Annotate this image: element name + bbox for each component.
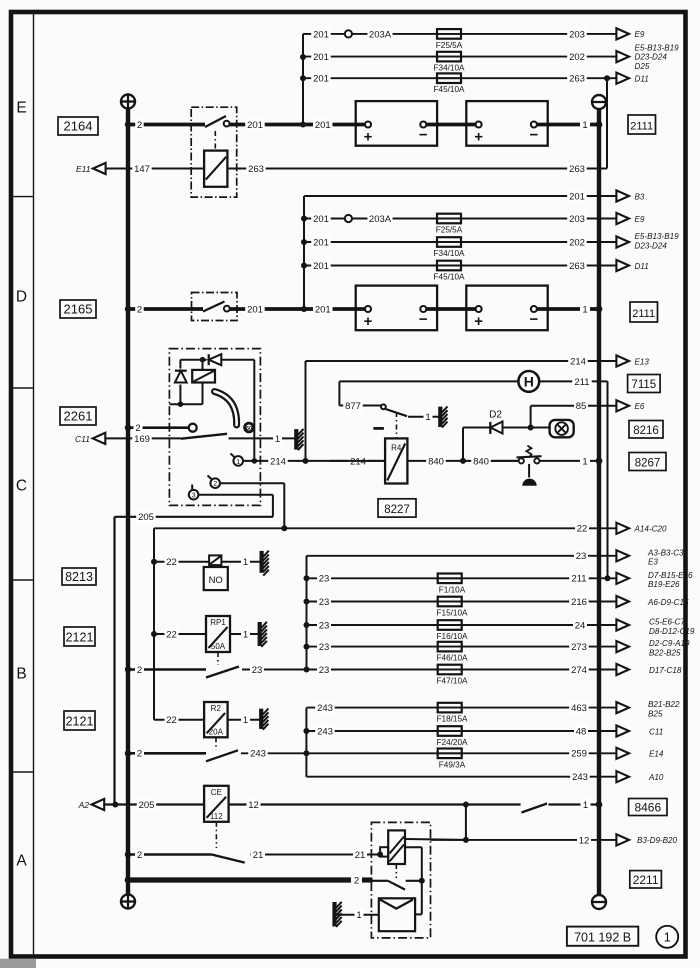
ignition feed contact circle: [189, 424, 197, 432]
thermal fuse NO: [204, 555, 228, 590]
svg-text:D2-C9-A19: D2-C9-A19: [649, 639, 690, 648]
wire 877 stub: [339, 381, 381, 412]
svg-text:201: 201: [313, 214, 329, 225]
diode D-top (2261): [209, 354, 222, 365]
svg-text:23: 23: [319, 665, 330, 676]
svg-text:203A: 203A: [369, 214, 392, 225]
wire 201 fuse line E5 (section D): [304, 236, 616, 248]
svg-text:274: 274: [571, 665, 587, 676]
fuse F16/10A: [437, 620, 468, 641]
svg-text:−: −: [419, 127, 428, 144]
mech link dash pump: [395, 864, 397, 878]
svg-text:1: 1: [243, 557, 248, 568]
svg-text:201: 201: [313, 74, 329, 85]
wire 2 from bus to switch (section D): [128, 303, 203, 315]
plus terminal symbol top: [121, 95, 135, 109]
wire 205 distribution: [115, 511, 273, 805]
wire 2 thick feed to pump contact: [128, 874, 373, 886]
connector box 2165: [60, 300, 96, 318]
fuse F45/10A (section E): [434, 73, 465, 94]
svg-text:147: 147: [134, 164, 150, 175]
wire 12 to B3-D9-B20: [431, 834, 617, 846]
wire 840 R4 to junction: [407, 455, 518, 467]
wire D2 diode line: [463, 425, 550, 431]
svg-text:202: 202: [569, 52, 585, 63]
svg-text:201: 201: [313, 261, 329, 272]
svg-text:1: 1: [243, 715, 248, 726]
svg-text:701 192 B: 701 192 B: [574, 931, 631, 945]
fuse F15/10A: [437, 597, 468, 618]
svg-text:8213: 8213: [65, 570, 93, 584]
svg-text:201: 201: [313, 29, 329, 40]
wire 1 R2 to ground bar: [228, 714, 260, 726]
svg-text:D: D: [16, 289, 27, 306]
wire feeder riser section E: [300, 34, 306, 128]
svg-text:2: 2: [354, 875, 359, 886]
wire 23 fuse F1 line to 211: [304, 572, 617, 584]
svg-text:263: 263: [569, 74, 585, 85]
svg-text:22: 22: [166, 629, 177, 640]
svg-text:2111: 2111: [630, 121, 653, 133]
actuator solenoid block: [380, 830, 405, 864]
relay mech link dash (section E): [214, 131, 216, 151]
connector box 2164: [58, 117, 98, 135]
arrow to A14-C20: [616, 523, 667, 534]
node label 202: [567, 51, 587, 63]
arrow to A6-D9-C15: [616, 596, 689, 607]
switch blade (23 line): [206, 667, 239, 678]
ignition rotary blade: [181, 434, 227, 439]
pump motor box: [379, 898, 415, 931]
svg-text:263: 263: [569, 164, 585, 175]
wire 1 NO to ground bar: [221, 556, 260, 568]
wire 214 into R4: [330, 460, 385, 462]
fuse F49/3A: [438, 749, 466, 770]
svg-text:2: 2: [213, 481, 217, 488]
connector box 8267: [629, 453, 666, 471]
svg-text:7115: 7115: [631, 379, 656, 391]
svg-text:F49/3A: F49/3A: [439, 760, 466, 769]
svg-text:F25/5A: F25/5A: [436, 41, 463, 50]
svg-text:23: 23: [319, 597, 330, 608]
svg-text:211: 211: [571, 574, 586, 585]
svg-text:A14-C20: A14-C20: [634, 525, 667, 534]
wire solenoid to 12 riser: [405, 838, 466, 841]
svg-text:840: 840: [428, 456, 444, 467]
ground bar (NO): [262, 551, 269, 576]
internal wire right branch: [405, 847, 422, 914]
svg-text:2: 2: [137, 120, 142, 131]
svg-text:E9: E9: [635, 215, 645, 224]
node label 203: [567, 28, 587, 40]
wire 23 fuse F46 line to 273: [304, 641, 617, 653]
fuse F25/5A (section D): [436, 214, 463, 235]
node label 203A: [368, 28, 393, 40]
svg-text:1: 1: [243, 629, 248, 640]
svg-text:60: 60: [246, 426, 252, 432]
horn H symbol: [518, 371, 539, 392]
svg-text:C11: C11: [75, 434, 90, 444]
wire 1 battery to ground bus (section D): [537, 303, 602, 315]
wire 201/203A fuse line E9 (section E): [303, 28, 616, 40]
svg-text:23: 23: [319, 620, 330, 631]
ignition contact 2 circled: [208, 476, 221, 489]
svg-text:C11: C11: [649, 727, 663, 736]
svg-text:A3-B3-C3: A3-B3-C3: [647, 548, 684, 557]
arrow to B3-D9-B20: [616, 834, 677, 845]
battery G4 (section D right): [466, 286, 547, 331]
svg-text:−: −: [530, 127, 539, 144]
svg-text:F34/10A: F34/10A: [434, 64, 465, 73]
svg-text:RP1: RP1: [210, 618, 226, 627]
svg-text:1: 1: [275, 434, 280, 445]
junction D11/263 riser: [604, 75, 610, 81]
svg-text:F25/5A: F25/5A: [436, 226, 463, 235]
wire 12 CE to switch: [229, 799, 521, 811]
node on bus (D feed): [125, 306, 131, 312]
wire 21 to actuator assembly: [251, 849, 384, 861]
svg-text:243: 243: [250, 749, 266, 760]
svg-text:22: 22: [577, 524, 588, 535]
svg-text:2211: 2211: [633, 873, 659, 887]
svg-text:B22-B25: B22-B25: [649, 649, 681, 658]
wire feeder riser section D: [301, 196, 307, 312]
node on bus (243 switch): [125, 750, 131, 756]
fuse F25/5A (section E): [436, 29, 463, 50]
connector box 2111 (section E): [628, 115, 656, 134]
svg-text:C: C: [16, 478, 27, 495]
svg-text:D23-D24: D23-D24: [635, 53, 668, 62]
svg-text:F24/20A: F24/20A: [437, 738, 468, 747]
pump contact blade: [373, 878, 425, 890]
wire 243 to A10: [306, 771, 616, 783]
connector box 8466: [629, 799, 667, 816]
svg-text:203A: 203A: [369, 29, 392, 40]
node label 263 (D): [567, 260, 587, 272]
svg-text:203: 203: [569, 214, 585, 225]
wire battery link (section E): [426, 123, 480, 127]
ignition contact 1 circled: [231, 454, 244, 466]
relay contact terminal circle: [224, 121, 230, 127]
svg-text:F45/10A: F45/10A: [434, 85, 465, 94]
wire 1 ground bar to pump: [336, 909, 379, 921]
svg-text:B21-B22: B21-B22: [648, 700, 680, 709]
node on bus (21 switch): [125, 851, 131, 857]
plus terminal symbol bottom: [121, 895, 135, 909]
arrow to D7-B15-E16 B19-E26: [616, 571, 693, 589]
wire 201 fuse line D11 (section D): [304, 260, 616, 272]
svg-text:8466: 8466: [634, 801, 661, 815]
scan smudge bottom-left: [0, 959, 36, 968]
contact terminal 60 (2261): [245, 423, 254, 432]
switch blade (8466): [522, 804, 548, 813]
switch blade (243): [206, 750, 238, 761]
svg-text:243: 243: [317, 703, 333, 714]
svg-text:D2: D2: [489, 410, 502, 421]
ground bar (877 switch): [440, 406, 447, 427]
battery G1 (section E left): [356, 101, 437, 146]
wire 85 to E6: [531, 400, 617, 428]
svg-text:8227: 8227: [384, 504, 410, 516]
arrow to D11 (D): [616, 260, 648, 271]
node label 203A (D): [368, 213, 393, 225]
svg-text:B3: B3: [635, 192, 645, 201]
wire 1 RP1 to ground bar: [230, 628, 258, 640]
svg-text:1: 1: [236, 459, 240, 466]
ground bar (2261 output 1): [296, 429, 303, 450]
wire 2 bus to switch (21): [128, 849, 212, 861]
switch terminal circle (D): [224, 306, 230, 312]
wire 1 switch to ground bus (8466): [549, 799, 603, 811]
node on bus (E feed): [125, 121, 131, 127]
svg-text:273: 273: [571, 642, 587, 653]
svg-text:263: 263: [248, 164, 264, 175]
connector box 8227: [378, 499, 416, 517]
arrow to E9 (D): [616, 213, 644, 224]
minus terminal symbol bottom: [592, 895, 606, 909]
arrow to A3-B3-C3 E3: [616, 548, 684, 566]
svg-text:22: 22: [166, 557, 177, 568]
diode D2: [489, 410, 502, 434]
svg-text:201: 201: [247, 120, 263, 131]
svg-text:21: 21: [253, 850, 264, 861]
svg-text:2164: 2164: [64, 119, 93, 134]
right ground bus wire: [597, 109, 601, 895]
wire battery link (section D): [426, 307, 480, 311]
svg-text:2165: 2165: [64, 302, 93, 317]
wire 23 rail to A3-B3-C3: [307, 550, 617, 670]
wire 243 switch to rail and fuse F49: [241, 747, 616, 759]
svg-text:21: 21: [355, 850, 366, 861]
wire 22 to relay R2: [154, 714, 204, 726]
svg-text:22: 22: [166, 715, 177, 726]
arrow to A10: [616, 771, 663, 782]
svg-text:E9: E9: [635, 30, 645, 39]
connector box 8216: [629, 421, 663, 439]
node label 203 (D): [567, 213, 587, 225]
svg-text:E: E: [16, 100, 26, 117]
wire 23 switch to fuse F47 line: [242, 664, 616, 676]
svg-text:+: +: [364, 313, 373, 330]
svg-text:259: 259: [571, 749, 587, 760]
wire 23 fuse F15 line to 216: [304, 596, 617, 608]
wire 205 A2 line through CE unit: [104, 799, 204, 811]
node on bus (wire 2 to 2261): [125, 425, 131, 431]
svg-text:205: 205: [138, 512, 154, 523]
svg-text:840: 840: [473, 456, 489, 467]
fuse F34/10A (section D): [434, 237, 465, 258]
svg-text:E11: E11: [76, 164, 91, 174]
svg-text:48: 48: [576, 726, 587, 737]
node label 263: [567, 72, 587, 84]
wire 12 riser: [465, 805, 467, 840]
wire 201 to B3 arrow: [304, 190, 616, 202]
fuse F24/20A: [437, 726, 468, 747]
cigar lighter symbol: [550, 420, 574, 437]
ignition switch assembly 2261 dash-dot housing: [169, 349, 260, 506]
rotary contact arc (2261): [215, 392, 237, 426]
wire contact3 to riser 205: [198, 495, 273, 517]
ground bar (R2): [261, 709, 268, 730]
wire 1 battery to ground bus (section E): [537, 119, 602, 131]
svg-text:1: 1: [582, 120, 587, 131]
svg-text:D23-D24: D23-D24: [635, 241, 668, 250]
svg-text:E6: E6: [635, 402, 645, 411]
relay R4: [385, 438, 407, 483]
svg-text:−: −: [419, 311, 428, 328]
wire 263 coil to D11 riser: [227, 78, 607, 175]
wire 2 bus to switch (23 line): [128, 664, 206, 676]
connector circle 203A: [345, 30, 352, 37]
title box 701 192 B: [567, 927, 638, 946]
svg-text:214: 214: [570, 356, 586, 367]
svg-text:D17-C18: D17-C18: [649, 666, 682, 675]
connector box 2121 upper: [64, 627, 95, 646]
arrow to E5-B13-B19 D23-D24 D25: [616, 43, 679, 71]
svg-text:F15/10A: F15/10A: [437, 609, 468, 618]
fuse F1/10A: [438, 574, 466, 595]
svg-text:112: 112: [210, 812, 223, 821]
ground bar (pump): [335, 902, 342, 927]
left supply bus wire: [126, 109, 130, 896]
fuse F45/10A (section D): [434, 261, 465, 282]
coil L1 (2261): [192, 370, 215, 383]
wire 2 bus to switch (243): [128, 747, 206, 759]
svg-text:2: 2: [137, 665, 142, 676]
wire 243 fuse F24 line to 48: [306, 725, 616, 737]
node label 202 (D): [567, 236, 587, 248]
svg-text:243: 243: [317, 726, 333, 737]
arrow to C11: [616, 725, 663, 736]
svg-text:D8-D12-C19: D8-D12-C19: [649, 627, 695, 636]
connector box 2211: [630, 871, 662, 888]
svg-text:D11: D11: [635, 75, 649, 84]
mech link dash RP1: [217, 652, 219, 665]
svg-text:+: +: [474, 129, 483, 146]
arrow to E14: [616, 748, 663, 759]
svg-text:R4: R4: [391, 444, 402, 453]
svg-text:1: 1: [582, 304, 587, 315]
wire 2 bus to ignition contact: [128, 422, 189, 434]
arrow to D11: [616, 73, 648, 84]
svg-text:50A: 50A: [211, 642, 226, 651]
svg-text:D7-B15-E16: D7-B15-E16: [648, 571, 693, 580]
arrow to A2: [78, 799, 105, 810]
svg-text:201: 201: [313, 52, 329, 63]
battery G3 (section D left): [356, 286, 437, 331]
wire riser D2: [462, 428, 464, 461]
relay coil (section E): [204, 151, 227, 187]
wire 23 fuse F16 line to 24: [304, 619, 617, 631]
svg-text:E14: E14: [649, 750, 664, 759]
connector circle 203A (D): [345, 215, 352, 222]
svg-text:243: 243: [572, 772, 588, 783]
svg-text:201: 201: [569, 191, 585, 202]
svg-text:211: 211: [574, 377, 589, 388]
wire internal top link (2261): [169, 357, 257, 464]
connector box 2261: [60, 407, 96, 425]
svg-text:−: −: [530, 311, 539, 328]
svg-text:12: 12: [579, 835, 590, 846]
wire 201/203A fuse line E9 (section D): [304, 213, 616, 225]
wire 1 thermal contact to ground bus: [540, 455, 603, 467]
arrow to E5-B13-B19 D23-D24: [616, 232, 679, 250]
relay blade (877 switch): [386, 409, 408, 416]
battery G2 (section E right): [466, 101, 547, 146]
svg-text:A: A: [16, 853, 27, 870]
switch S-D dash-dot housing: [192, 293, 238, 321]
svg-text:D11: D11: [635, 262, 649, 271]
svg-text:F18/15A: F18/15A: [437, 715, 468, 724]
svg-text:F34/10A: F34/10A: [434, 249, 465, 258]
connector box 8213: [62, 568, 96, 585]
svg-text:169: 169: [134, 434, 150, 445]
relay RP1/50A: [206, 616, 230, 652]
svg-text:B25: B25: [648, 710, 663, 719]
switch blade (section D): [203, 302, 225, 312]
svg-text:202: 202: [569, 237, 585, 248]
svg-text:F45/10A: F45/10A: [434, 273, 465, 282]
arrow to B3: [616, 190, 644, 201]
svg-text:8216: 8216: [633, 425, 659, 437]
ground bar (RP1): [260, 622, 267, 647]
svg-text:F46/10A: F46/10A: [437, 654, 468, 663]
svg-text:E5-B13-B19: E5-B13-B19: [635, 43, 680, 52]
wire 2 from bus to relay (section E): [128, 119, 205, 131]
svg-text:CE: CE: [211, 788, 222, 797]
minus mark near R4: [373, 427, 384, 430]
svg-text:203: 203: [569, 29, 585, 40]
svg-text:F1/10A: F1/10A: [439, 585, 466, 594]
arrow to E9: [616, 28, 644, 39]
svg-text:3: 3: [192, 493, 196, 500]
svg-text:24: 24: [575, 620, 586, 631]
control unit CE/112: [204, 786, 229, 822]
svg-text:201: 201: [315, 304, 331, 315]
mech link dash R4: [396, 412, 398, 438]
arrow to C11: [75, 433, 105, 444]
svg-text:2: 2: [137, 749, 142, 760]
wire 22 to relay RP1: [151, 628, 206, 640]
svg-text:214: 214: [270, 456, 286, 467]
minus terminal symbol top: [592, 95, 606, 109]
svg-text:2261: 2261: [64, 409, 93, 424]
svg-text:2121: 2121: [66, 715, 94, 729]
arrow to D2-C9-A19 B22-B25: [616, 639, 690, 657]
svg-text:23: 23: [319, 574, 330, 585]
arrow to E13: [616, 355, 649, 366]
svg-text:B19-E26: B19-E26: [648, 580, 680, 589]
wire 201 switch to batteries (section D): [230, 303, 368, 315]
svg-text:201: 201: [315, 120, 331, 131]
svg-text:A10: A10: [648, 773, 664, 782]
svg-text:NO: NO: [209, 575, 223, 586]
svg-text:216: 216: [571, 597, 587, 608]
wire 214 contact to coil R4 and E13 riser: [243, 455, 385, 467]
wire 169 C11 to ignition blade: [105, 432, 181, 444]
svg-text:12: 12: [248, 800, 259, 811]
svg-text:877: 877: [345, 401, 361, 412]
svg-text:20A: 20A: [209, 728, 224, 737]
wire 211 horn line: [339, 375, 607, 578]
svg-text:463: 463: [571, 703, 587, 714]
svg-text:1: 1: [664, 930, 671, 944]
svg-text:R2: R2: [211, 704, 222, 713]
mech link dash CE: [215, 822, 217, 848]
wire 22 rail left: [154, 522, 616, 720]
svg-text:23: 23: [319, 642, 330, 653]
wire contact2 to riser 22: [220, 483, 284, 528]
